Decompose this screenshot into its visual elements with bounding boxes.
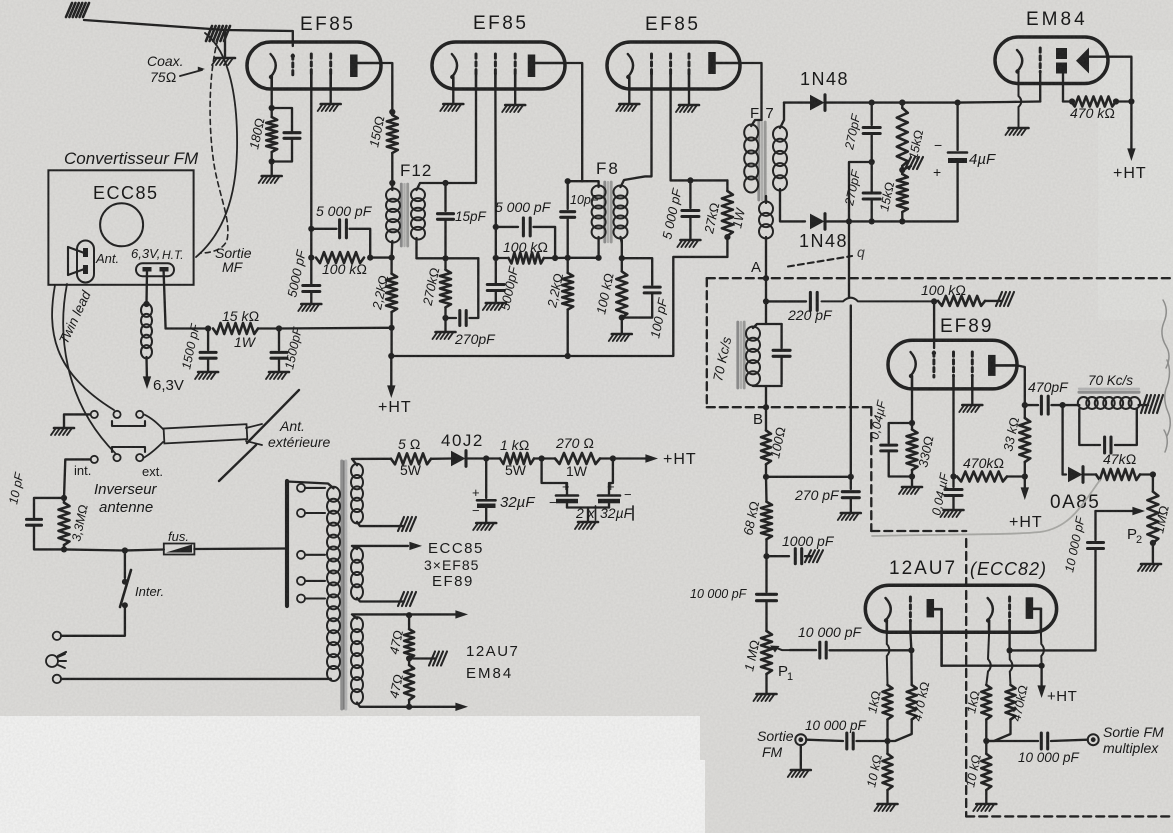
resistor 10k triode2 <box>981 754 991 790</box>
grid1 lead <box>910 632 911 650</box>
capacitor 470pF <box>1025 404 1038 406</box>
primary selector bar <box>285 481 289 606</box>
V3 grid 3 <box>688 54 691 74</box>
capacitor 5000pF coupling stage2 <box>496 226 518 228</box>
resistor 10k triode1 <box>883 754 893 790</box>
tank bottom wire <box>753 385 782 387</box>
diode 0A85 <box>1061 405 1063 474</box>
ground under 100k stage3 <box>621 318 623 333</box>
wire V1 anode to 150 ohm <box>381 63 392 112</box>
V4 grid3 <box>971 352 974 376</box>
resistor 47k <box>1096 469 1140 480</box>
discriminator parallel capacitor <box>1079 409 1100 445</box>
heater lead + choke <box>145 271 148 304</box>
capacitor 270pF lower <box>863 191 880 194</box>
V2 grid 1 <box>475 54 478 74</box>
Ant connector <box>77 241 94 283</box>
2x32uF common ground <box>566 503 568 507</box>
anode2 lead hop <box>1041 632 1044 665</box>
V1 grid 2 <box>310 54 313 74</box>
heater power connector <box>136 263 174 276</box>
sortie FM connector <box>795 734 806 745</box>
dashed box vertical right <box>870 407 872 531</box>
V5 grid 1 <box>909 597 912 621</box>
resistor 27k 1W <box>722 191 733 236</box>
P1 coupling line 10000pF <box>790 649 816 651</box>
ground under 270k <box>444 318 446 331</box>
resistor 2.2k stage3 bias <box>562 273 573 310</box>
V4 grid3 ground <box>971 389 973 404</box>
+HT arrow EM84 <box>1130 102 1132 154</box>
resistor 470k EM84 <box>1071 97 1116 107</box>
capacitor 1000pF <box>763 553 769 559</box>
dashed 12AU7 divider <box>965 539 967 816</box>
resistor 15k upper <box>897 108 908 166</box>
wire V2 grid2 down <box>494 89 497 227</box>
capacitor 0.04uF cathode <box>889 423 912 443</box>
tank top wire <box>753 324 782 328</box>
V3 cathode <box>628 54 633 77</box>
coax cable curve inner <box>201 39 228 253</box>
F12 secondary coil <box>411 189 425 202</box>
mains wire top <box>64 549 125 550</box>
chassis stub 100k EF89 <box>985 300 1002 302</box>
ground P2 <box>1141 563 1161 566</box>
capacitor 15pF <box>444 183 446 211</box>
multiplex coupling 10000pF <box>986 740 1038 742</box>
V2 anode <box>528 55 536 78</box>
dashed shield box left <box>706 278 708 407</box>
HV secondary winding <box>351 464 363 478</box>
tube V3 EF85 (3rd IF amplifier) <box>607 42 740 89</box>
anode1 lead down <box>940 632 943 665</box>
HV winding lower lead <box>357 522 404 526</box>
capacitor 32uF <box>485 459 487 499</box>
resistor 100k stage2 <box>509 253 544 264</box>
heater winding ECC85 <box>351 548 363 563</box>
V5 cathode 2 <box>988 598 993 621</box>
V4 cathode network <box>911 389 913 423</box>
HT bus wire <box>391 257 727 356</box>
wire HT to 15k <box>166 327 209 329</box>
+HT arrow EF89 <box>1021 487 1029 500</box>
wire 15k to stage rail <box>279 327 391 330</box>
coax braid ground <box>224 31 226 57</box>
ground sortie FM <box>800 745 802 769</box>
resistor 1k triode2 <box>981 685 991 720</box>
wire V1 grid2 line down <box>310 89 312 258</box>
resistor 470k screen <box>957 472 1007 482</box>
P1 wiper arrow <box>774 647 790 650</box>
V1 anode <box>350 55 358 78</box>
V4 anode <box>988 355 996 376</box>
mains lead 1 <box>61 605 125 636</box>
wire to +HT <box>613 457 648 459</box>
resistor 68k <box>761 502 772 540</box>
grid2 feed from P2 <box>1010 649 1096 651</box>
F8 secondary top to V3 grid1 <box>621 89 652 187</box>
V3 grid 1 <box>650 54 653 74</box>
F7 core <box>757 122 760 200</box>
F12 core <box>400 184 403 246</box>
V1 grid 1 <box>291 55 294 78</box>
F7 secondary coil <box>773 127 787 142</box>
primary coil <box>327 487 340 502</box>
capacitor 10000pF series <box>765 556 767 592</box>
wire row under F12 <box>417 257 479 259</box>
Ant connector leads <box>68 247 83 253</box>
ground V3 grid3 <box>688 89 690 104</box>
coax cable curve outer <box>196 33 237 257</box>
dashed box horiz to 12AU7 <box>871 530 966 532</box>
ground 270pF B <box>841 512 861 515</box>
resistor 47 ohm lower <box>404 665 414 700</box>
tap between 270pF caps <box>849 162 872 221</box>
wire 150ohm to F12 <box>391 153 393 190</box>
V4 grid2 feed <box>952 389 954 487</box>
+HT arrow stage feed <box>390 356 392 390</box>
V6 anode lead <box>1089 57 1131 102</box>
capacitor 2x32uF b <box>609 459 613 495</box>
ground 10k triode1 <box>878 803 898 806</box>
tube V1 EF85 (1st IF amplifier) <box>247 42 381 89</box>
P2 wiper coupling 10000pF <box>1094 511 1096 540</box>
discriminator coil <box>1063 404 1080 406</box>
70kc coil core bar <box>1079 391 1139 394</box>
V6 grid2 lead <box>1062 74 1064 102</box>
resistor 330 ohm <box>907 430 918 471</box>
ground V3 cathode <box>628 89 630 103</box>
V5 cathode 1 <box>886 598 891 621</box>
resistor 5 ohm <box>391 453 431 464</box>
ground V1 grid3 <box>330 89 332 103</box>
wire to V2 grid1 <box>446 89 477 183</box>
ground V2 cathode <box>452 89 454 103</box>
node bus taps <box>388 353 394 359</box>
tube V4 EF89 <box>888 340 1017 389</box>
grid2 lead <box>1008 632 1010 650</box>
node B <box>763 404 769 410</box>
V5 anode 2 <box>1026 597 1034 619</box>
row1 bracket <box>112 421 145 426</box>
V4 grid1 <box>932 352 935 377</box>
F8 secondary bottom <box>621 240 623 258</box>
ground under 330 <box>911 477 913 487</box>
resistor 100k stage3 <box>616 271 627 317</box>
capacitor 10pF <box>34 498 64 518</box>
heater winding bottom lead <box>357 703 458 707</box>
V2 cathode <box>452 54 457 77</box>
wire tertiary to node A <box>765 237 767 278</box>
wire 220pF hop to EF89 grid <box>822 298 935 302</box>
sortie FM multiplex connector <box>1088 734 1099 745</box>
V6 cathode <box>1017 50 1022 72</box>
ECC85 circle <box>100 203 143 246</box>
capacitor 220pF <box>766 300 806 302</box>
resistor 15k 1W dropper <box>213 323 258 334</box>
V6 deflection electrodes <box>1056 48 1067 59</box>
F8 secondary coil <box>614 186 628 199</box>
capacitor 5000pF to ground stage1 <box>310 258 312 284</box>
70kc tank coil <box>746 327 760 341</box>
resistor 150 ohm <box>387 115 398 153</box>
tube V6 EM84 <box>995 37 1108 84</box>
F12 secondary bottom lead <box>415 238 417 258</box>
ground 10k triode2 <box>976 803 996 806</box>
6.3V arrow <box>145 357 148 382</box>
chassis 47 mid <box>409 657 435 659</box>
chassis discriminator <box>1139 404 1148 406</box>
twin lead cable from Ant <box>52 285 114 410</box>
feeder leads <box>144 414 163 429</box>
capacitor 0.04uF screen <box>945 488 962 491</box>
capacitor 270pF upper <box>871 103 873 125</box>
F8 core <box>603 182 606 242</box>
ribbon feeder to ext antenna <box>164 424 248 443</box>
coax shield hatch <box>66 3 72 17</box>
V1 grid 3 <box>329 54 332 74</box>
F12 primary coil <box>386 189 400 202</box>
coax center wire to V1 grid1 <box>84 20 293 46</box>
tank capacitor <box>780 324 782 348</box>
transformer core <box>340 461 343 709</box>
resistor 270 ohm 1W <box>555 453 600 464</box>
switch Inter <box>124 551 126 579</box>
capacitor 1500pF left <box>207 329 209 351</box>
heater winding 12AU7 <box>351 617 363 632</box>
wire row under F8 <box>568 257 599 259</box>
heater choke coil <box>141 304 152 317</box>
resistor 15k lower <box>897 174 908 212</box>
heater line top arrow <box>404 613 458 615</box>
V1 cathode <box>271 54 276 77</box>
capacitor 5000pF coupling stage1 <box>311 228 336 230</box>
resistor 47 ohm upper <box>404 629 414 658</box>
top rail to EM84 <box>872 101 958 103</box>
V3 grid 2 <box>669 54 672 74</box>
V2 grid 2 <box>494 54 497 74</box>
chassis stub 15k midpoint <box>902 166 911 170</box>
mains plug symbol <box>46 655 58 667</box>
resistor 100 ohm B <box>761 430 771 464</box>
ground P1 <box>757 693 777 696</box>
tube V5 12AU7 <box>865 585 1056 632</box>
F8 primary coil <box>592 186 606 199</box>
capacitor 10pF <box>567 181 569 209</box>
V4 anode to node <box>1017 365 1025 405</box>
+HT arrow 12AU7 <box>1040 666 1042 690</box>
F7 primary coil <box>744 125 758 141</box>
resistor 3.3M <box>59 503 70 545</box>
int antenna wire <box>64 459 91 498</box>
70kc tank coil core <box>736 322 739 388</box>
wire grid2 to row <box>495 227 497 258</box>
ext antenna slash <box>247 390 299 443</box>
V5 grid 2 <box>1008 597 1011 621</box>
potentiometer P1 1M <box>761 631 772 674</box>
heater winding lower lead <box>357 598 404 602</box>
capacitor 100pF <box>622 258 652 285</box>
ground under 180 ohm <box>271 162 273 176</box>
potentiometer P2 1M <box>1152 475 1154 492</box>
mains lead 2 <box>53 675 61 683</box>
resistor 100k EF89 grid <box>765 300 767 302</box>
mains wire to transformer <box>194 547 287 550</box>
ground V2 grid3 <box>514 89 516 104</box>
wire V1 cathode to node <box>271 89 273 108</box>
wire V3 anode to F7 <box>740 63 762 120</box>
anode coupling wire <box>942 665 1042 667</box>
wire grid1 EF89 from top <box>933 301 935 348</box>
cathode1 lead hop <box>887 632 890 685</box>
wire grid2 row to 27k <box>671 179 728 181</box>
pencil scribble <box>872 480 1100 536</box>
capacitor 2x32uF a <box>542 459 567 495</box>
switch row1 contacts <box>91 411 98 418</box>
primary bottom lead <box>330 678 333 681</box>
V6 target triangle <box>1076 48 1089 74</box>
rail to EM84 grid <box>958 101 1008 104</box>
row2 bracket <box>112 447 145 452</box>
HT lead down <box>164 271 166 329</box>
V5 anode 1 <box>927 599 935 617</box>
tube V2 EF85 (2nd IF amplifier) <box>432 42 565 89</box>
margin annotation <box>1162 300 1169 368</box>
resistor 470k triode1 <box>907 685 917 720</box>
wire F7 tap down <box>848 221 850 297</box>
wire V2 anode down to F8 <box>565 63 582 181</box>
antenna changeover ground <box>64 414 90 427</box>
diode 1N48 bottom <box>810 214 825 230</box>
node grid2 join <box>308 226 314 232</box>
coax shield termination hatch <box>206 26 212 41</box>
diode 40J2 <box>431 457 452 460</box>
capacitor 4uF electrolytic <box>956 103 958 150</box>
capacitor 1500pF right <box>278 329 280 351</box>
capacitor 270pF stage2 bottom <box>446 317 457 319</box>
primary top lead <box>287 482 334 489</box>
diode 1N48 top <box>784 101 811 103</box>
wire to F12 primary bottom <box>370 256 391 258</box>
V2 grid 3 <box>514 54 517 74</box>
resistor 1k 5W <box>486 457 500 459</box>
resistor 180 ohm cathode V1 <box>266 117 277 152</box>
capacitor 5000pF to ground stage3 <box>689 180 691 208</box>
V6 grid <box>1039 48 1042 72</box>
resistor 470k triode2 <box>1006 685 1016 720</box>
sortie FM coupling 10000pF <box>806 740 843 741</box>
wire row stage3 left <box>555 257 568 260</box>
fuse <box>125 550 164 551</box>
resistor 33k <box>1019 418 1030 462</box>
feeder right leads <box>246 424 262 428</box>
capacitor 270pF B <box>850 477 852 489</box>
cathode2 lead hop <box>986 632 990 685</box>
wire V3 grid2 down <box>669 89 671 180</box>
V4 grid2 <box>952 352 955 376</box>
P2 wiper arrow <box>1096 510 1137 512</box>
F8 primary leads <box>582 181 598 187</box>
dashed shield box top <box>707 277 1173 279</box>
V4 cathode <box>911 352 916 376</box>
node A <box>763 275 769 281</box>
dashed shield box bottom <box>707 406 872 408</box>
primary tap circles <box>297 484 305 492</box>
dashed arrow near A <box>788 256 852 267</box>
dashed bottom right <box>966 815 1173 817</box>
V3 anode <box>708 52 716 74</box>
converter box <box>48 170 193 284</box>
capacitor 5000pF to ground stage2 <box>495 258 497 283</box>
resistor 1k triode1 <box>883 685 893 720</box>
resistor 2.2k stage1 bias <box>386 274 397 312</box>
F12 secondary top lead <box>417 183 446 190</box>
V6 cathode lead hop to ground <box>1019 72 1022 128</box>
resistor 270k <box>440 270 451 308</box>
coax pointer <box>180 70 202 76</box>
wire A down <box>765 278 767 324</box>
wire B row to 270pF <box>766 476 851 478</box>
F7 tertiary coil <box>759 202 773 216</box>
switch row2 contacts <box>91 456 98 463</box>
capacitor cathode bypass V1 <box>272 108 292 133</box>
resistor 100k stage1 <box>316 252 364 263</box>
